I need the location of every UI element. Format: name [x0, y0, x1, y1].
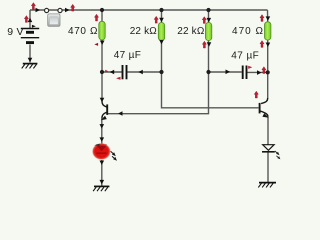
red arrow below R4 [260, 41, 264, 48]
wire branch2 vertical and base line A to Q2 [162, 10, 259, 108]
LED D1 lit glow [92, 143, 111, 160]
red current arrow on rail [71, 4, 75, 11]
current arrow down above R4 [266, 16, 271, 21]
small red arrow below-left of C1 [116, 77, 121, 80]
resistor R1 470 ohm [99, 21, 105, 40]
current arrow down above R3 [207, 18, 212, 23]
LED D1 light ray arrows [111, 151, 117, 161]
svg-text:47 µF: 47 µF [231, 50, 259, 61]
svg-text:47 µF: 47 µF [114, 50, 141, 61]
LED D2 unlit symbol [262, 145, 275, 152]
current arrow up on battery wire [28, 18, 33, 23]
wire battery vertical [29, 10, 31, 28]
current arrow right on rail before switch [36, 8, 41, 13]
wire capacitor C1 row [102, 71, 162, 73]
node rail-branch3 [206, 8, 210, 12]
ground under LED2 [258, 183, 276, 188]
current arrow left on C1 left wire [110, 70, 115, 75]
small red arrow above-right of C2 [248, 66, 252, 69]
resistor R4 470 ohm [265, 22, 271, 40]
wire branch1 emitter to LED1 to ground [101, 118, 103, 187]
LED D2 light ray arrows [275, 151, 281, 159]
red arrow above resistor R3 [202, 17, 206, 24]
LED D1 triangle tip dash [94, 144, 99, 146]
node rail-branch1 [100, 8, 104, 12]
red arrow above resistor R1 [94, 14, 98, 21]
current arrow down below R2 [159, 40, 164, 45]
current arrow down above Q1 [100, 98, 105, 103]
wire capacitor C2 row [209, 71, 268, 73]
node branch1-C1 [100, 70, 104, 74]
capacitor C1 47uF plates [123, 65, 127, 79]
LED D1 symbol under glow [96, 144, 107, 150]
current arrow right on C2 right wire [257, 70, 262, 75]
current arrow down before battery ground [28, 58, 33, 63]
red arrow below R3 [202, 41, 206, 48]
current arrow on C1 right wire [138, 70, 143, 75]
current arrow down above R2 [159, 18, 164, 23]
current arrow left on Q1 base wire [118, 111, 123, 116]
svg-text:22 kΩ: 22 kΩ [130, 26, 158, 37]
current arrow right on rail after switch [65, 8, 70, 13]
small red arrow right of node C1 [105, 70, 108, 73]
battery B1 9V [21, 29, 39, 43]
current arrow down below Q1 emitter [100, 124, 105, 129]
node branch2-C1 [159, 70, 163, 74]
small red tick below R1 [94, 43, 98, 46]
current arrow down above LED1 [100, 137, 105, 142]
LED D1 symbol showing through [97, 146, 106, 151]
resistor R2 22k [158, 23, 164, 41]
wire branch4 vertical [267, 10, 269, 99]
node branch3-C2 [206, 70, 210, 74]
ground battery [22, 64, 38, 69]
node branch4-C2 [266, 70, 270, 74]
current arrow down below R1 [100, 41, 105, 46]
red current arrow at battery top corner [31, 3, 35, 10]
Q1 emitter arrowhead [101, 116, 107, 121]
Q2 emitter arrowhead [262, 113, 269, 118]
transistor Q1 [102, 102, 107, 118]
svg-text:22 kΩ: 22 kΩ [177, 26, 205, 37]
red arrow above Q2 [254, 91, 258, 98]
wire branch1 resistor to cap node [101, 10, 103, 102]
wire top rail [30, 9, 268, 11]
battery polarity arrow [32, 25, 36, 28]
wire battery to ground [29, 45, 31, 63]
wire branch3 vertical and base line B to Q1 [108, 10, 209, 114]
switch push button [48, 14, 60, 26]
svg-text:9 V: 9 V [7, 26, 23, 38]
red arrow before node branch4 [262, 67, 266, 74]
current arrow down below R4 [266, 43, 271, 48]
transistor Q2 [260, 98, 268, 117]
resistor R3 22k [205, 23, 211, 41]
current arrow down above ground1 [100, 180, 105, 185]
ground under LED1 [93, 186, 109, 191]
red arrow above resistor R4 [260, 15, 264, 22]
current arrow down below LED1 [100, 161, 105, 166]
wire Q2 emitter to LED2 to ground [267, 117, 269, 182]
svg-text:470 Ω: 470 Ω [232, 26, 264, 37]
red current arrow left of battery wire [24, 16, 28, 23]
current arrow down below R3 [207, 42, 212, 47]
red arrow above resistor R2 [154, 16, 158, 23]
current arrow right on C2 left wire [226, 70, 231, 75]
capacitor C2 47uF plates [243, 66, 247, 80]
switch SW1 contacts [45, 8, 49, 12]
node rail-branch2 [159, 8, 163, 12]
svg-text:470 Ω: 470 Ω [68, 26, 98, 37]
